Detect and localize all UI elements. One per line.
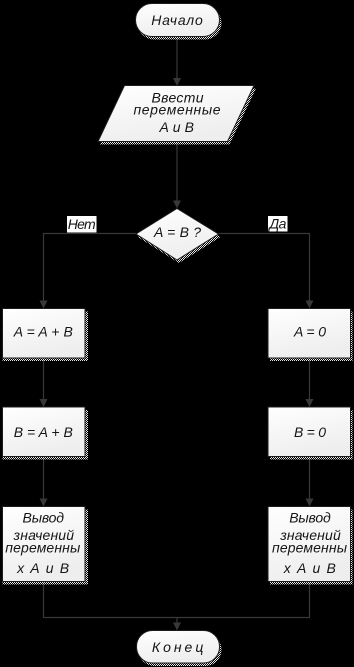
svg-text:А и В: А и В <box>158 119 194 135</box>
svg-text:A = 0: A = 0 <box>293 324 326 340</box>
svg-text:переменны: переменны <box>5 540 81 556</box>
svg-text:Нет: Нет <box>68 216 96 232</box>
svg-text:A = A + B: A = A + B <box>13 324 73 340</box>
svg-text:х А и В: х А и В <box>16 560 69 576</box>
svg-text:Начало: Начало <box>151 12 203 28</box>
svg-text:A = B ?: A = B ? <box>153 224 201 240</box>
svg-text:переменны: переменны <box>272 540 348 556</box>
svg-text:переменные: переменные <box>134 101 221 117</box>
svg-text:Да: Да <box>267 216 286 232</box>
svg-text:Вывод: Вывод <box>23 510 65 526</box>
svg-text:х А и В: х А и В <box>283 560 336 576</box>
svg-text:B = 0: B = 0 <box>294 424 326 440</box>
svg-text:B = A + B: B = A + B <box>14 424 73 440</box>
svg-text:Вывод: Вывод <box>289 510 331 526</box>
svg-text:Конец: Конец <box>152 639 204 655</box>
